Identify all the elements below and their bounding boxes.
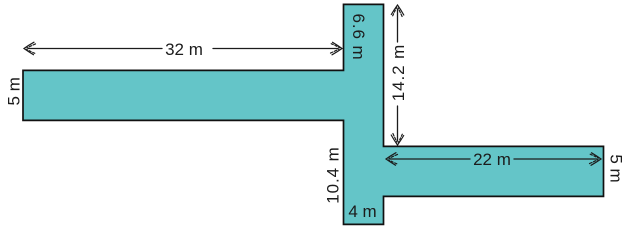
dimension 32 m : right arrowhead [331,42,343,55]
svg-text:10.4 m: 10.4 m [323,146,342,203]
dimension 14.2 m : line bottom segment [397,106,399,141]
dimension 22 m : line left segment [390,158,470,160]
svg-text:32 m: 32 m [165,40,203,59]
dimension 22 m : right arrowhead [590,153,602,166]
dimension 22 m : left arrowhead [386,153,398,166]
dimension 14.2 m : line top segment [397,9,399,42]
dimension 22 m : line right segment [514,158,597,160]
dimension 32 m : left arrowhead [24,42,36,55]
dimension 14.2 m : top arrowhead [391,5,404,17]
svg-text:6.6 m: 6.6 m [349,13,368,60]
svg-text:5 m: 5 m [607,154,626,182]
svg-text:5 m: 5 m [5,77,24,105]
svg-text:4 m: 4 m [348,202,376,221]
dimension 14.2 m : bottom arrowhead [391,134,404,146]
svg-text:14.2 m: 14.2 m [389,44,408,101]
dimension 32 m : line left segment [28,48,162,50]
dimension 32 m : line right segment [213,48,338,50]
svg-text:22 m: 22 m [473,150,511,169]
